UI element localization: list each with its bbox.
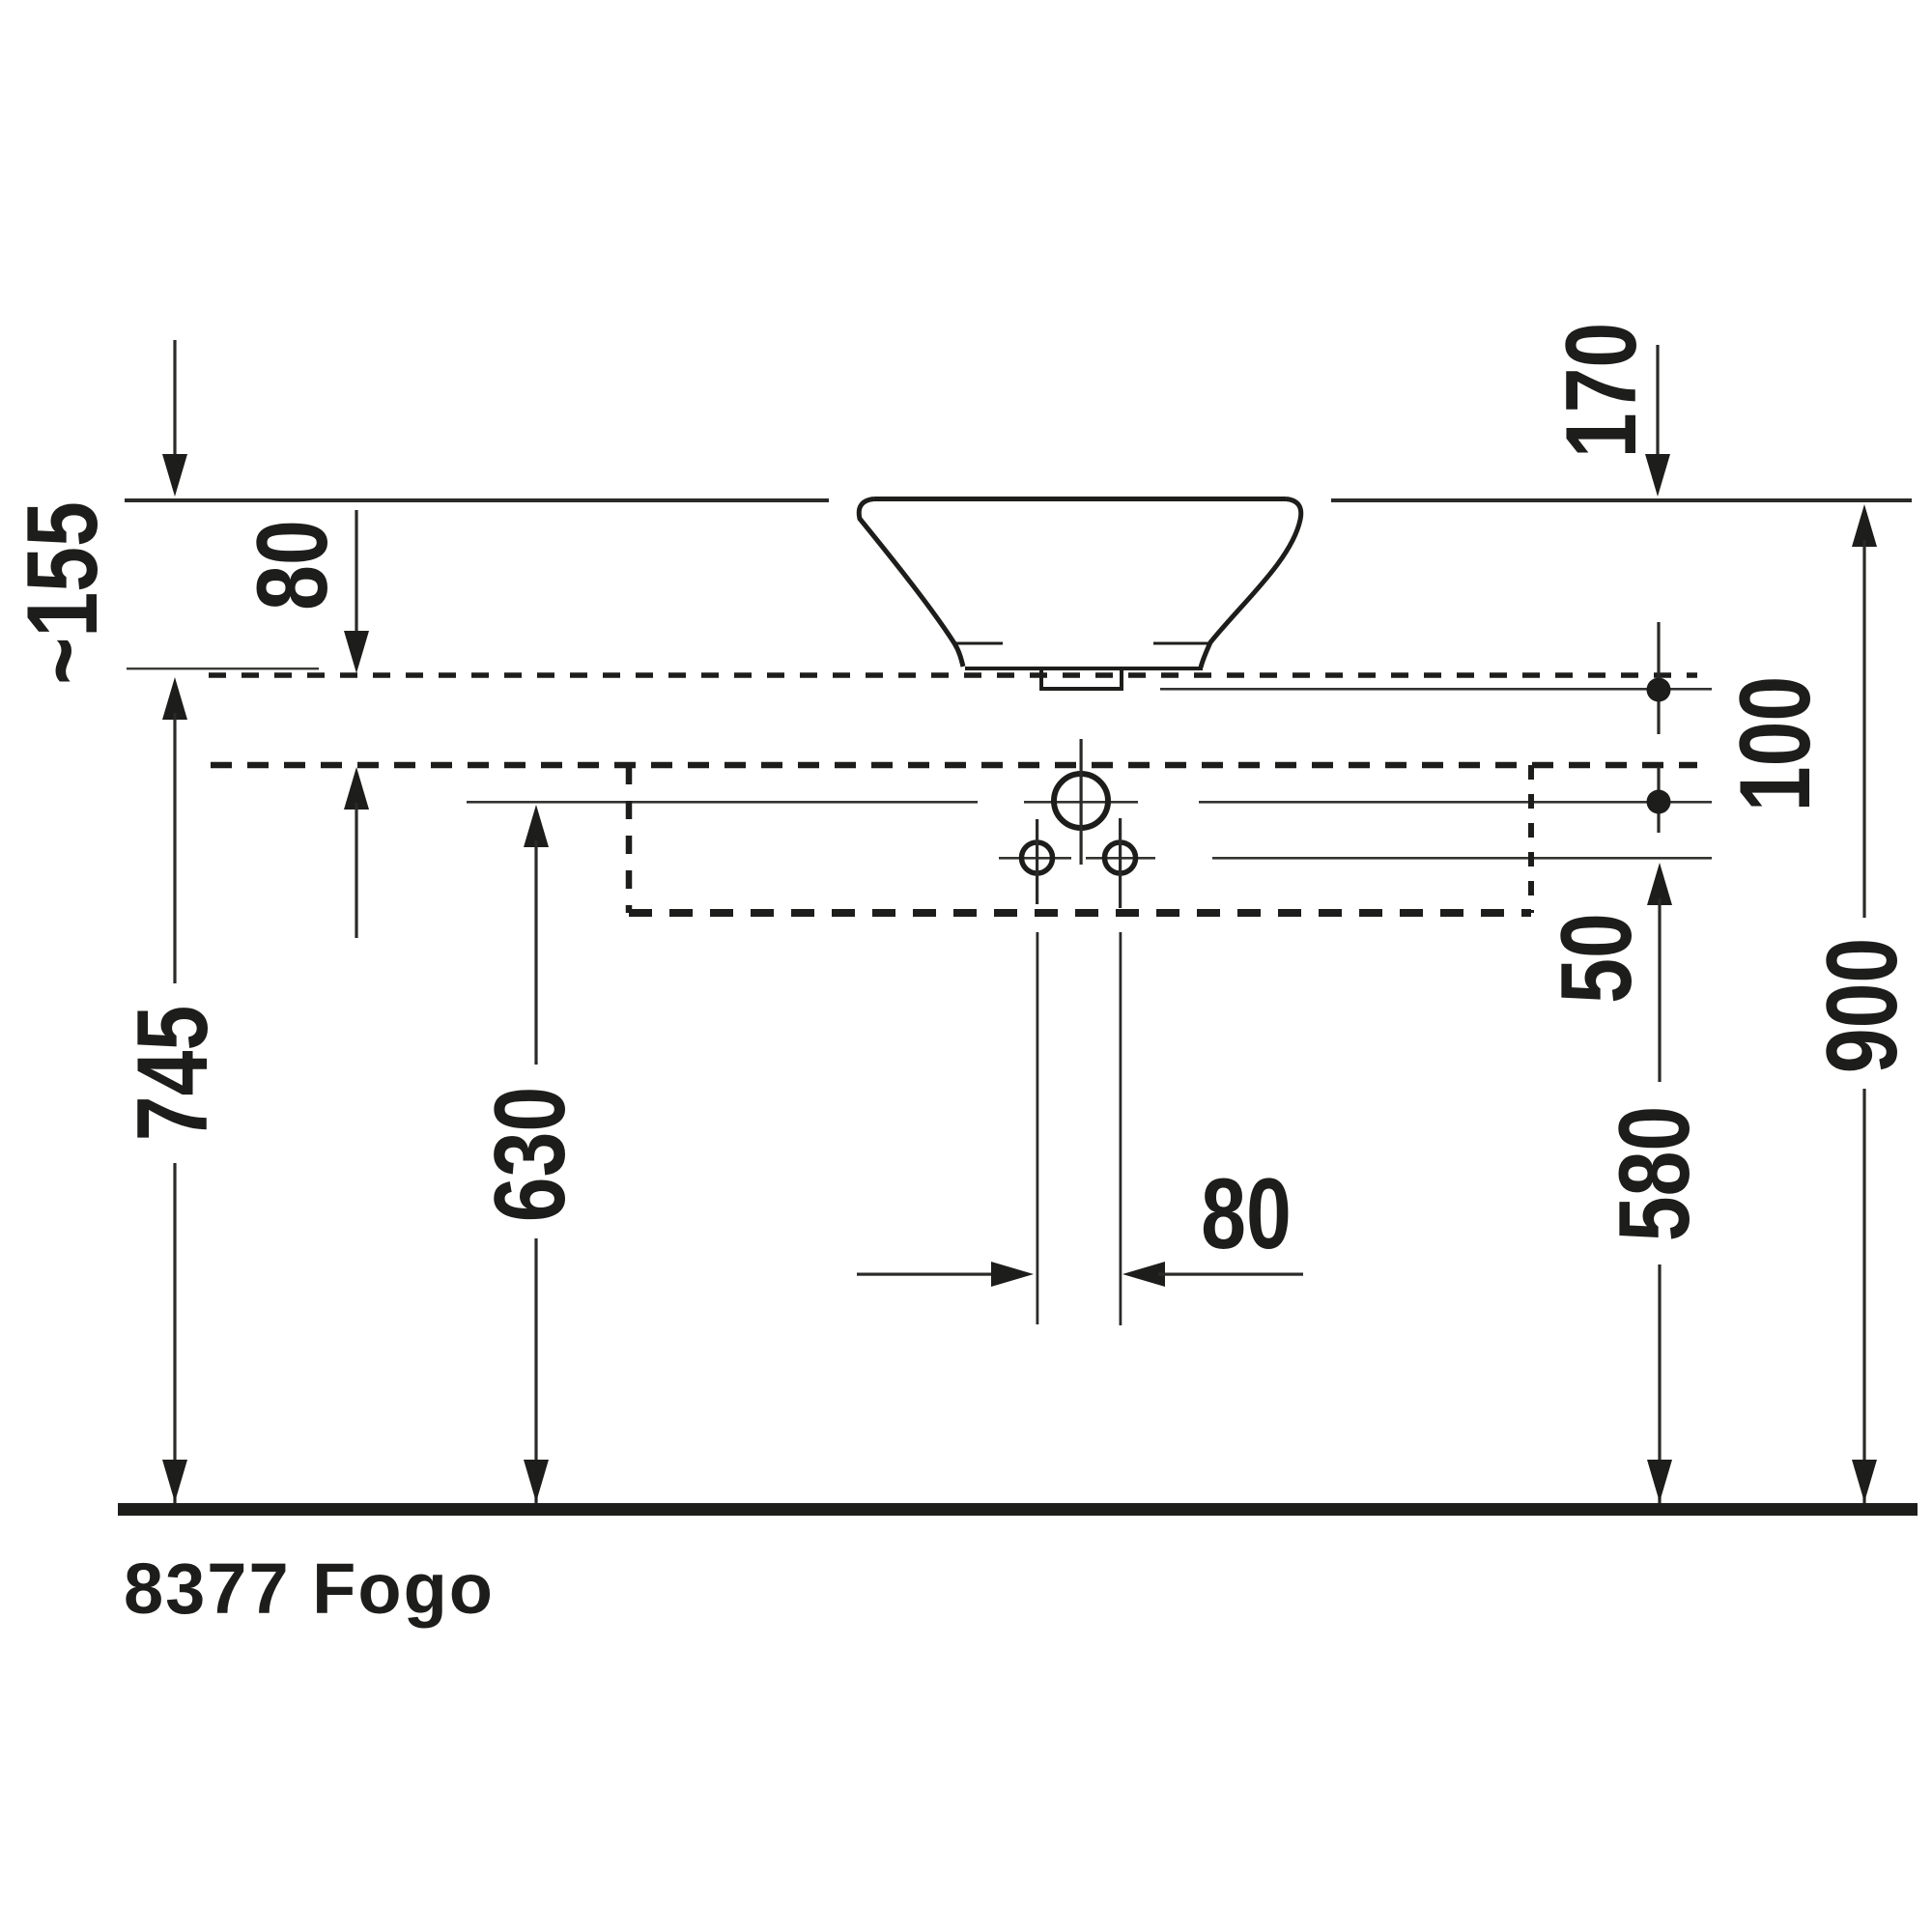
faucet large circle center tick [1080, 739, 1083, 865]
dimension 80 (counter thickness) down arrow [344, 510, 369, 673]
dimension 630 line: up arrow at faucet line, down arrow at floor [524, 805, 549, 1503]
wire: dashed counter top line (y 699) [209, 672, 1697, 678]
wire: level line A (y 713) right of drain [1160, 688, 1712, 691]
washbowl outline [859, 499, 1301, 690]
svg-text:170: 170 [1546, 323, 1658, 459]
inner bowl bottom right line [1153, 642, 1208, 645]
wire: rim reference line left segment [125, 498, 829, 502]
rim top bar [874, 497, 1286, 501]
dimension ~155 upper arrow (down at rim line) [162, 340, 187, 497]
svg-text:8377 Fogo: 8377 Fogo [124, 1548, 495, 1629]
right rim corner + right wall [1201, 499, 1301, 668]
node: supply reference dot lower with tick [1657, 767, 1660, 833]
console dashed outline: bottom edge [629, 909, 1531, 917]
left fixing hole small circle [1022, 842, 1053, 873]
svg-text:100: 100 [1719, 676, 1832, 812]
floor line [118, 1503, 1918, 1516]
dimension 80 (drain offset) horizontal: left segment with right arrow [857, 1262, 1034, 1287]
svg-text:80: 80 [1201, 1158, 1292, 1270]
basin base line [965, 667, 1203, 670]
left rim corner + left wall [859, 499, 963, 668]
wire: level line B through faucet center (y 830) [467, 801, 978, 804]
dimension 80 (counter thickness) up arrow below [344, 767, 369, 938]
faucet hole large circle [1054, 774, 1108, 828]
console dashed outline: left edge [626, 766, 633, 913]
right fixing hole small circle [1105, 842, 1136, 873]
dimension 900 line: up arrow at rim line, down arrow at floor [1852, 504, 1877, 1503]
dimension 580/50 line: up arrow at line C, down arrow at floor [1647, 863, 1672, 1503]
svg-text:745: 745 [117, 1006, 229, 1142]
inner bowl bottom left line [954, 642, 1003, 645]
right small circle center tick [1119, 818, 1122, 908]
dimension 170 down arrow at rim line (right) [1645, 345, 1670, 497]
svg-text:50: 50 [1541, 913, 1653, 1004]
dimension 80 (drain offset) horizontal: right segment with left arrow [1122, 1262, 1303, 1287]
console dashed outline: right edge [1528, 765, 1534, 913]
svg-text:900: 900 [1806, 938, 1918, 1074]
wire: right extension line below (drain width dim) [1120, 932, 1122, 1325]
wire: dashed counter underside line (y 792) [211, 762, 1697, 769]
svg-text:580: 580 [1599, 1106, 1711, 1242]
svg-text:630: 630 [474, 1087, 586, 1223]
wire: level line C through side holes (y 888) [999, 857, 1071, 860]
wire: left extension line below (drain width dim) [1037, 932, 1039, 1324]
left small circle center tick [1036, 819, 1038, 904]
wire: thin counter underside line far left [127, 668, 319, 669]
node: supply reference dot upper with tick [1657, 622, 1660, 734]
drain box left edge [1039, 669, 1043, 689]
wire: rim reference line right segment [1331, 498, 1912, 502]
drain box bottom [1039, 687, 1123, 691]
drain box right edge [1120, 669, 1123, 689]
svg-text:80: 80 [237, 520, 349, 611]
svg-text:~155: ~155 [7, 501, 119, 685]
dimension 745 line with up arrow at counter underside and down arrow at floor [162, 677, 187, 1503]
